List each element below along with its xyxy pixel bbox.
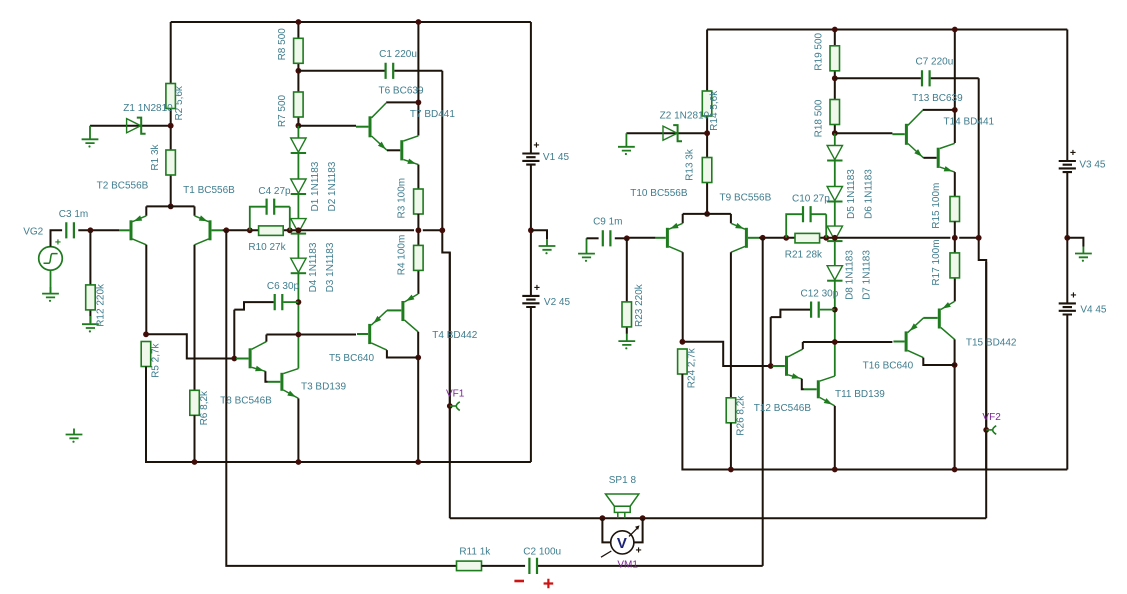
node R10 left	[247, 227, 253, 233]
node top rail T13/T14	[952, 27, 958, 33]
svg-text:D7 1N1183: D7 1N1183	[862, 250, 873, 300]
wire T2 collector to T8 base	[146, 334, 236, 358]
svg-text:R2 5,6k: R2 5,6k	[174, 85, 185, 120]
ground at zener	[618, 133, 635, 155]
svg-text:T12 BC546B: T12 BC546B	[754, 403, 812, 414]
svg-text:T9 BC556B: T9 BC556B	[720, 193, 772, 204]
node VF2 output pin	[983, 427, 989, 433]
svg-text:V: V	[617, 535, 627, 552]
svg-text:R11 1k: R11 1k	[459, 547, 491, 558]
transistor T14 BD441	[938, 143, 955, 172]
capacitor C10 plates	[803, 206, 811, 222]
diode D1 1N1183	[291, 138, 306, 152]
ground at supply mid	[539, 239, 556, 250]
wire T5 collector	[387, 350, 418, 357]
svg-text:C4 27p: C4 27p	[258, 186, 291, 197]
node chain / T8 collector	[296, 332, 302, 338]
svg-text:V1 45: V1 45	[543, 152, 570, 163]
wire T13 base row	[835, 132, 893, 134]
transistor T4 BD442	[401, 301, 404, 321]
ground at zener	[82, 126, 99, 143]
node T3 emitter rail	[296, 459, 302, 465]
wire mid bias row	[759, 237, 979, 239]
wire supply mid to ground	[531, 230, 547, 239]
wire zener branch row	[90, 125, 171, 127]
svg-text:T14 BD441: T14 BD441	[944, 117, 995, 128]
resistor R3 100m	[414, 189, 424, 214]
resistor R17 100m	[950, 253, 960, 278]
svg-text:D8 1N1183: D8 1N1183	[845, 250, 856, 300]
node R21 left	[783, 235, 789, 241]
node T1 base	[223, 227, 229, 233]
diode D4 1N1183	[291, 258, 306, 272]
wire bootstrap drop / output jog	[442, 71, 450, 462]
svg-text:+: +	[1070, 290, 1076, 302]
wire T10 collector	[682, 252, 684, 341]
wire T10 collector to T12 base	[682, 342, 772, 366]
svg-text:D1 1N1183: D1 1N1183	[310, 161, 321, 211]
wire R8 column	[297, 22, 299, 126]
pin VF1	[450, 405, 456, 407]
node collectors T13/T14	[952, 107, 958, 113]
wire zener branch row	[626, 132, 707, 134]
wire output rail right	[985, 262, 987, 518]
wire feedback bottom right	[538, 470, 763, 566]
resistor R23 220k	[622, 302, 632, 327]
svg-text:T10 BC556B: T10 BC556B	[630, 188, 688, 199]
wire R26 bottom	[730, 423, 732, 470]
transistor T10 BC556B	[655, 223, 682, 252]
node T11 emitter rail	[832, 467, 838, 473]
wire R14 column	[706, 30, 708, 214]
diode D7 1N1183	[827, 226, 842, 241]
wire T1 collector	[194, 245, 196, 390]
wire T15 collector	[954, 339, 956, 469]
capacitor C4 plates	[267, 199, 275, 215]
node chain / mid row	[296, 227, 302, 233]
wire diode chain	[297, 126, 299, 369]
transistor T6 BC639	[369, 116, 372, 137]
node top rail T6/T7	[416, 19, 422, 25]
wire feedback bottom left	[226, 462, 456, 566]
svg-text:+: +	[533, 140, 539, 152]
wire T6/T7 collectors column	[386, 22, 418, 136]
node supply mid	[528, 227, 534, 233]
wire R5 bottom	[146, 367, 531, 463]
svg-text:T2 BC556B: T2 BC556B	[97, 180, 149, 191]
svg-text:R18 500: R18 500	[814, 99, 825, 137]
resistor R19 500	[830, 46, 840, 71]
wire R3/R4 column	[417, 214, 419, 294]
node R19 top rail	[832, 27, 838, 33]
node mid row / C7 drop	[976, 235, 982, 241]
node R7 bottom	[296, 123, 302, 129]
svg-text:T5 BC640: T5 BC640	[329, 353, 374, 364]
wire R12 branch	[89, 230, 91, 323]
wire R11 to C2	[482, 565, 526, 567]
svg-text:VM1: VM1	[617, 559, 638, 570]
node T15 collector rail	[952, 467, 958, 473]
battery V2 45	[522, 296, 539, 307]
wire T12 collector row	[803, 342, 893, 349]
wire input ground to C9	[587, 237, 599, 239]
ground at supply mid	[1075, 247, 1092, 262]
wire T16 collector	[923, 358, 954, 365]
resistor R21 28k	[795, 233, 820, 243]
ground at C9 input	[578, 238, 595, 257]
node T9 base	[760, 235, 766, 241]
battery V1 45	[522, 154, 539, 165]
resistor R10 27k	[259, 226, 284, 236]
svg-text:C7 220u: C7 220u	[915, 57, 953, 68]
resistor R7 500	[294, 92, 304, 117]
wire V+ top rail (left channel)	[171, 21, 531, 23]
speaker SP1 8	[606, 494, 639, 506]
svg-text:R26 8,2k: R26 8,2k	[735, 395, 746, 436]
node R21 right	[823, 235, 829, 241]
node R19/R18 junction	[832, 75, 838, 81]
svg-text:VG2: VG2	[23, 227, 43, 238]
node C12 to base	[768, 363, 774, 369]
capacitor C10 27p branch	[786, 214, 826, 238]
wire T2 collector	[145, 245, 147, 334]
svg-text:D5 1N1183: D5 1N1183	[846, 169, 857, 219]
svg-text:T15 BD442: T15 BD442	[966, 338, 1017, 349]
svg-text:VF1: VF1	[446, 388, 465, 399]
svg-text:C10 27p: C10 27p	[792, 193, 830, 204]
wire T13/T14 collectors column	[923, 30, 955, 144]
svg-text:R6 8,2k: R6 8,2k	[199, 390, 210, 425]
floating ground	[66, 429, 83, 439]
node R8 top rail	[296, 19, 302, 25]
node C12 on chain	[832, 307, 838, 313]
svg-text:T4 BD442: T4 BD442	[432, 330, 477, 341]
wire VM1 leads	[602, 518, 642, 542]
svg-text:T13 BC639: T13 BC639	[912, 93, 963, 104]
node R5 top	[143, 331, 149, 337]
wire T11 emitter	[834, 406, 836, 470]
wire input base row	[90, 229, 119, 231]
node mid row / C1 drop	[439, 227, 445, 233]
svg-text:R23 220k: R23 220k	[634, 283, 645, 327]
plus sign V4	[1070, 290, 1076, 302]
wire supply column	[1066, 30, 1068, 470]
node T4/T5 collectors	[415, 355, 421, 361]
transistor T1 BC556B	[209, 220, 212, 240]
svg-text:T3 BD139: T3 BD139	[301, 382, 346, 393]
transistor T9 BC556B	[731, 223, 759, 252]
svg-text:C9 1m: C9 1m	[593, 217, 622, 228]
node output mid	[952, 235, 958, 241]
wire feedback column	[762, 238, 764, 470]
svg-text:SP1 8: SP1 8	[609, 475, 637, 486]
wire T8 emitter to T3 base	[265, 371, 267, 382]
wire T5 emitter to T4 base	[386, 309, 388, 311]
node R10 right	[287, 227, 293, 233]
resistor R24 2,7k	[678, 349, 688, 374]
resistor R11 1k	[457, 561, 482, 571]
wire T9 collector	[730, 252, 732, 397]
svg-text:R5 2,7k: R5 2,7k	[150, 342, 161, 377]
pin VF2	[986, 429, 992, 431]
wire VG2 to ground	[50, 270, 52, 293]
wire bootstrap drop / output jog	[979, 78, 987, 469]
plus sign V3	[1070, 147, 1076, 159]
voltmeter VM1	[611, 531, 634, 554]
battery V4 45	[1059, 303, 1076, 314]
node T15/T16 collectors	[952, 362, 958, 368]
transistor T7 BD441	[400, 140, 403, 160]
svg-text:R24 2,7k: R24 2,7k	[687, 347, 698, 388]
wire mid bias row	[223, 229, 443, 231]
wire T16 emitter to T15 base	[922, 317, 924, 319]
plus mark C2	[544, 579, 554, 589]
node C3/R12/T2 base	[88, 227, 94, 233]
svg-text:+: +	[636, 544, 642, 556]
wire R15/R17 column	[954, 222, 956, 302]
wire T12 emitter to T11 base	[802, 379, 804, 390]
capacitor C3 1m	[66, 222, 74, 238]
transistor T3 BD139	[280, 373, 283, 391]
resistor R18 500	[830, 100, 840, 125]
wire V+ top rail (right channel)	[707, 29, 1067, 31]
svg-text:+: +	[55, 237, 61, 249]
node C6 to base	[231, 356, 237, 362]
diode D2 1N1183	[291, 179, 306, 193]
svg-text:D4 1N1183: D4 1N1183	[308, 242, 319, 292]
capacitor C2 100u	[529, 558, 537, 574]
wire speaker row	[450, 517, 986, 519]
wire supply mid to ground	[1067, 238, 1083, 247]
svg-text:T8 BC546B: T8 BC546B	[220, 395, 272, 406]
resistor R8 500	[294, 38, 304, 63]
wire C9 to base node	[615, 237, 627, 239]
capacitor C7 220u	[922, 70, 930, 86]
svg-text:VF2: VF2	[982, 412, 1001, 423]
wire output rail left	[449, 253, 451, 519]
resistor R14	[702, 91, 712, 116]
node speaker right	[640, 515, 646, 521]
diode D5 1N1183	[827, 146, 842, 161]
transistor T11 BD139	[804, 376, 835, 406]
node zener/R1/R2	[168, 123, 174, 129]
wire T14 emitter to R3	[954, 172, 956, 196]
node C6 on chain	[296, 299, 302, 305]
svg-text:R8 500: R8 500	[277, 28, 288, 61]
resistor R2	[166, 84, 176, 109]
transistor T2 BC556B	[130, 220, 133, 240]
node zener/R1/R2	[704, 130, 710, 136]
wire supply column	[530, 22, 532, 462]
ground at R12	[82, 316, 99, 328]
capacitor C12 plates	[811, 302, 819, 318]
capacitor C9 1m	[603, 230, 611, 246]
node chain / mid row	[832, 235, 838, 241]
node T4 collector rail	[415, 459, 421, 465]
svg-text:R4 100m: R4 100m	[396, 235, 407, 276]
resistor R4 100m	[414, 245, 424, 270]
wire feedback column	[225, 230, 227, 462]
node chain / T12 collector	[832, 339, 838, 345]
node diff-pair tail	[168, 204, 174, 210]
ground at VG2	[42, 287, 59, 297]
svg-text:T11 BD139: T11 BD139	[835, 389, 885, 400]
capacitor C6 plates	[275, 294, 283, 310]
svg-text:R21 28k: R21 28k	[785, 250, 823, 261]
capacitor C4 27p branch	[250, 207, 290, 231]
node speaker left	[600, 515, 606, 521]
svg-text:+: +	[534, 282, 540, 294]
transistor T16 BC640	[893, 318, 923, 358]
svg-text:T1 BC556B: T1 BC556B	[183, 185, 235, 196]
svg-text:T16 BC640: T16 BC640	[863, 361, 914, 372]
wire T6 base row	[298, 125, 356, 127]
svg-text:C1 220u: C1 220u	[379, 49, 417, 60]
wire VG2 to C3	[51, 230, 91, 246]
svg-text:R12 220k: R12 220k	[95, 283, 106, 327]
node R24 top	[680, 339, 686, 345]
svg-text:D3 1N1183: D3 1N1183	[325, 242, 336, 292]
resistor R5 2,7k	[141, 342, 151, 367]
wire diode chain	[834, 133, 836, 376]
svg-text:V2 45: V2 45	[544, 297, 571, 308]
node supply mid	[1064, 235, 1070, 241]
wire diff-pair emitters	[146, 206, 194, 215]
battery V3 45	[1059, 161, 1076, 172]
svg-text:R1 3k: R1 3k	[150, 143, 161, 170]
node C9/R23/T10 base	[624, 235, 630, 241]
resistor R15 100m	[950, 197, 960, 222]
svg-text:R15 100m: R15 100m	[931, 183, 942, 229]
resistor R26 8,2k	[726, 398, 736, 423]
node R18 bottom	[832, 130, 838, 136]
wire diff-pair emitters	[683, 214, 731, 223]
transistor T12 BC546B	[772, 349, 802, 379]
svg-text:V4 45: V4 45	[1080, 305, 1107, 316]
svg-text:V3 45: V3 45	[1079, 160, 1106, 171]
wire bootstrap row	[835, 77, 979, 79]
zener Z1	[127, 119, 141, 133]
wire R2 column	[170, 22, 172, 206]
transistor T15 BD442	[923, 301, 954, 339]
diode D8 1N1183	[827, 266, 842, 281]
svg-text:R14 5,6k: R14 5,6k	[709, 90, 720, 131]
svg-text:R17 100m: R17 100m	[931, 239, 942, 285]
node R6 rail	[192, 459, 198, 465]
svg-text:D6 1N1183: D6 1N1183	[863, 169, 874, 219]
transistor T13 BC639	[892, 110, 923, 157]
svg-text:R13 3k: R13 3k	[684, 148, 695, 181]
resistor R12 220k	[86, 285, 96, 310]
diode D6 1N1183	[827, 187, 842, 202]
wire T6 emitter to T7 base	[387, 149, 400, 151]
zener Z2	[663, 125, 682, 141]
node R8/R7 junction	[296, 68, 302, 74]
node output mid	[416, 227, 422, 233]
wire input base row	[627, 237, 656, 239]
capacitor C12 30p branch	[771, 310, 835, 366]
svg-text:+: +	[1070, 147, 1076, 159]
capacitor C1 220u	[386, 63, 394, 79]
transistor T5 BC640	[368, 324, 371, 344]
wire T7 emitter to R3	[417, 165, 419, 189]
svg-text:R7 500: R7 500	[277, 94, 288, 127]
resistor R1	[166, 150, 176, 175]
node collectors T6/T7	[416, 100, 422, 106]
svg-text:R3 100m: R3 100m	[396, 178, 407, 219]
svg-text:C2 100u: C2 100u	[523, 547, 561, 558]
wire R6 bottom	[194, 415, 196, 462]
svg-text:Z1 1N2810: Z1 1N2810	[123, 103, 173, 114]
wire T8 collector row	[266, 335, 356, 342]
wire T3 emitter	[297, 398, 299, 462]
ground at R23	[618, 334, 635, 345]
svg-text:C3 1m: C3 1m	[59, 209, 88, 220]
svg-text:T7 BD441: T7 BD441	[410, 109, 455, 120]
resistor R13	[702, 158, 712, 183]
resistor R6 8,2k	[190, 390, 200, 415]
diode D3 1N1183	[291, 219, 306, 233]
node R26 rail	[728, 467, 734, 473]
svg-text:D2 1N1183: D2 1N1183	[327, 161, 338, 211]
minus mark C2	[514, 580, 524, 583]
wire R19 column	[834, 30, 836, 134]
svg-text:Z2 1N2810: Z2 1N2810	[660, 111, 710, 122]
svg-text:R19 500: R19 500	[814, 32, 825, 70]
wire T13 emitter to T14 base	[923, 157, 936, 159]
node VF1 output pin	[447, 403, 453, 409]
svg-text:R10 27k: R10 27k	[248, 242, 286, 253]
svg-text:T6 BC639: T6 BC639	[378, 85, 423, 96]
capacitor C6 30p branch	[283, 301, 298, 303]
wire T4 collector	[417, 332, 419, 462]
svg-text:C6 30p: C6 30p	[267, 281, 300, 292]
wire bootstrap row	[298, 70, 442, 72]
transistor T8 BC546B	[249, 348, 252, 368]
wire R23 branch	[626, 238, 628, 334]
wire R24 bottom	[682, 374, 1067, 470]
svg-text:C12 30p: C12 30p	[800, 289, 838, 300]
node diff-pair tail	[704, 211, 710, 217]
source VG2	[39, 247, 63, 271]
